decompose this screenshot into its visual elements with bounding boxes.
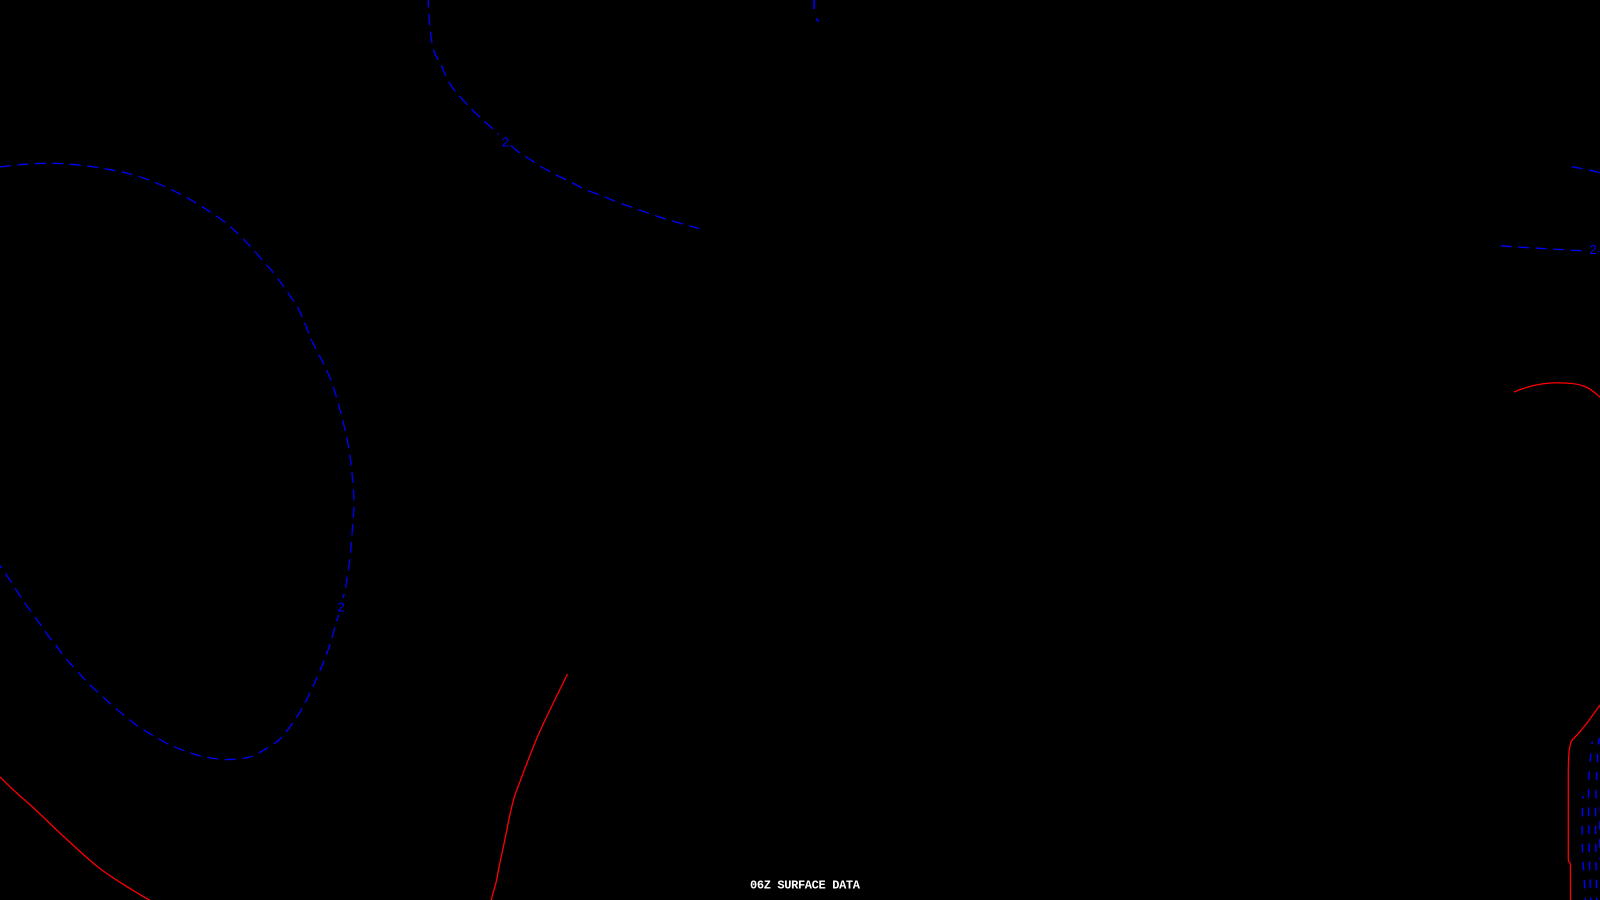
- isodrosotherm big left C-shaped contour (blue dashed): [0, 163, 354, 759]
- svg-text:2: 2: [502, 135, 509, 150]
- small dashed fragment near top center-right: [814, 0, 819, 22]
- svg-text:2: 2: [338, 600, 345, 615]
- fan line A: [1582, 796, 1585, 900]
- right-edge lower dashed segment: [1501, 246, 1600, 252]
- fan line B: [1588, 742, 1592, 900]
- bottom-right fan of dashed contours: [1582, 738, 1600, 900]
- red front: right-edge hump: [1514, 383, 1600, 397]
- svg-text:06Z SURFACE DATA: 06Z SURFACE DATA: [750, 879, 861, 893]
- label gap backing for right segment "2": [1588, 242, 1598, 257]
- fan line C: [1596, 738, 1600, 900]
- red front: bottom-right solid curve: [1568, 705, 1600, 900]
- svg-text:2: 2: [1590, 242, 1597, 257]
- right-edge upper dashed segment: [1572, 167, 1600, 173]
- label gap backing for left contour "2": [335, 598, 347, 615]
- fan line D (clipped at edge): [1599, 806, 1600, 860]
- red front: bottom-left solid curve: [0, 777, 150, 900]
- isodrosotherm top-center contour (blue dashed): [428, 0, 699, 229]
- label gap backing for top contour "2": [499, 132, 511, 149]
- red front: center solid curve: [491, 674, 567, 900]
